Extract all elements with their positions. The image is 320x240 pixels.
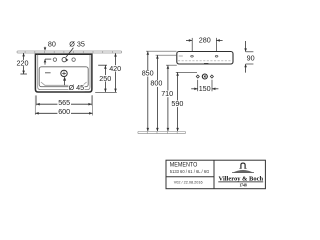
supply valve right (diamond) [210,75,213,78]
dimension 590 [171,72,197,131]
dimension 850 [141,51,176,131]
svg-text:150: 150 [199,84,211,93]
svg-text:Ø 35: Ø 35 [69,39,85,48]
dimension 800 [150,55,177,131]
dimension 710 [161,65,177,131]
svg-text:420: 420 [109,64,121,73]
dimension 90 [244,41,254,73]
dimension 280 [186,36,223,51]
svg-text:710: 710 [161,89,173,98]
svg-text:850: 850 [142,68,154,77]
svg-text:280: 280 [199,36,211,45]
dimension 565 [36,98,92,107]
supply valve left (diamond) [196,75,199,78]
overflow mark [45,72,51,74]
svg-text:220: 220 [17,58,29,67]
extension lines for width dimensions [35,95,92,115]
dimension 220 [15,53,29,74]
dimension 250 [98,65,112,92]
tap hole right [72,58,75,61]
tap hole centre [62,57,66,61]
svg-text:5133 60 / 61 / 6L / 6G: 5133 60 / 61 / 6L / 6G [170,169,210,174]
svg-text:565: 565 [58,98,70,107]
svg-text:80: 80 [48,39,56,48]
tap hole left [53,58,56,61]
fixing hole left [191,56,194,58]
dimension 80 [44,39,56,64]
svg-text:Ø 45: Ø 45 [69,83,85,92]
svg-text:MEMENTO: MEMENTO [170,161,198,168]
svg-text:1748: 1748 [239,183,247,187]
bowl outline (plan) [39,67,88,87]
basin outer outline (plan) [35,54,92,92]
Villeroy & Boch logo icon arch [240,163,247,168]
leader and label Ø45 [63,77,85,92]
extension line front edge [95,91,117,93]
svg-text:V02 / 22.08.2016: V02 / 22.08.2016 [174,181,203,185]
svg-text:800: 800 [150,79,162,88]
floor band [138,131,186,133]
basin face (front elevation) [177,52,233,65]
bowl floor line [41,82,87,85]
logo mound [232,170,254,173]
dimension 150 [191,80,218,93]
drain outlet (circle with cross) [202,74,207,79]
dimension 420 [109,53,122,92]
wordmark underline [218,181,263,183]
inner detail dash [179,55,183,57]
svg-text:590: 590 [171,99,183,108]
dimension 600 [35,107,92,116]
svg-text:250: 250 [99,74,111,83]
svg-text:90: 90 [247,53,255,62]
leader and label Ø35 [64,39,85,61]
svg-text:600: 600 [58,107,70,116]
drain Ø45 circle [61,70,67,76]
basin inner offset line (plan) [38,55,90,90]
wall band (plan view) [17,51,122,53]
fixing hole right [215,56,218,58]
title block frame [166,160,265,189]
hidden dashed line in face [178,60,232,62]
drain slot mark [204,62,208,64]
